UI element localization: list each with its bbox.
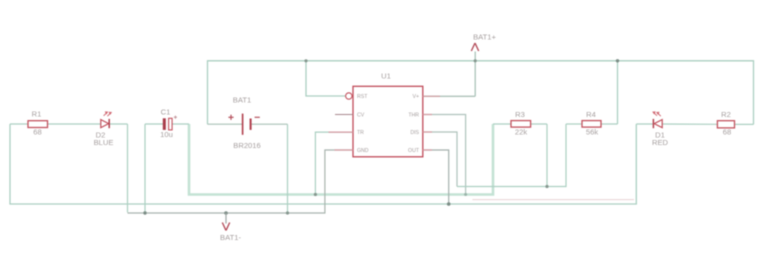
junction on rail at R4 right riser bbox=[616, 59, 619, 62]
svg-text:R4: R4 bbox=[586, 110, 596, 119]
wire: R4 left lead bbox=[566, 123, 582, 125]
wire: R4 right riser to rail bbox=[617, 61, 619, 124]
LED D2 emission arrows bbox=[104, 112, 112, 117]
wire: output rail R1 left riser, bottom run, D1 left riser bbox=[10, 124, 636, 204]
svg-text:CV: CV bbox=[357, 112, 365, 118]
junction on rail at RST riser bbox=[304, 59, 307, 62]
svg-text:R2: R2 bbox=[721, 110, 731, 119]
battery BAT1 minus sign bbox=[255, 116, 260, 118]
svg-text:V+: V+ bbox=[413, 94, 420, 100]
pin stub V+ bbox=[423, 95, 440, 97]
svg-text:BR2016: BR2016 bbox=[233, 141, 260, 150]
LED D2 triangle bbox=[101, 120, 109, 128]
junction ground rail at BAT1- stub bbox=[224, 211, 228, 215]
resistor R1 bbox=[28, 121, 48, 128]
wire: D1 to R2 bbox=[662, 123, 717, 125]
wire: R4 right lead bbox=[601, 123, 618, 125]
svg-text:TR: TR bbox=[357, 130, 364, 136]
svg-text:C1: C1 bbox=[161, 107, 171, 116]
wire: RST net from rail down to reset bubble bbox=[306, 61, 345, 96]
svg-text:BLUE: BLUE bbox=[94, 138, 114, 147]
wire: V+ pin to BAT1+ riser bbox=[423, 95, 475, 97]
wire: R3 left lead bbox=[493, 123, 511, 125]
capacitor C1 right plate bbox=[169, 118, 173, 130]
svg-text:68: 68 bbox=[33, 127, 41, 136]
svg-text:DIS: DIS bbox=[410, 130, 419, 136]
svg-text:10u: 10u bbox=[160, 130, 173, 139]
junction THR net at TR riser bbox=[314, 193, 317, 196]
wire: battery positive lead bbox=[208, 123, 243, 125]
LED D2 cathode bar bbox=[108, 119, 110, 128]
wire: R1 to D2 anode bbox=[48, 123, 101, 125]
power flag BAT1- arrow bbox=[222, 223, 229, 231]
wire: battery negative lead bbox=[251, 123, 288, 125]
svg-text:R3: R3 bbox=[515, 110, 525, 119]
pin stub THR bbox=[423, 114, 432, 116]
pin stub CV (unconnected) bbox=[335, 114, 353, 116]
pin stub OUT bbox=[423, 149, 432, 151]
wire: ground rail bottom grey run and GND pin riser bbox=[128, 150, 353, 213]
junction THR net at THR riser bbox=[464, 193, 467, 196]
junction on rail at BAT1+ riser bbox=[474, 59, 477, 62]
wire: BAT1+ riser from arrow down to V+ pin wire bbox=[474, 52, 476, 97]
svg-text:22k: 22k bbox=[515, 127, 527, 136]
svg-text:BAT1+: BAT1+ bbox=[473, 33, 496, 42]
battery BAT1 plus sign bbox=[228, 115, 233, 120]
svg-text:U1: U1 bbox=[381, 72, 391, 81]
wire: C1 left lead bbox=[145, 123, 163, 125]
battery BAT1 short negative plate bbox=[250, 119, 252, 130]
pin stub DIS bbox=[423, 131, 432, 133]
resistor R4 bbox=[582, 121, 601, 128]
junction discharge net at R3 right bbox=[545, 185, 548, 188]
wire: R3 right lead riser to discharge net bbox=[546, 124, 548, 187]
svg-text:GND: GND bbox=[357, 148, 369, 154]
wire: OUT pin right, down to output rail bbox=[423, 150, 449, 206]
wire: D2 cathode riser to ground rail bbox=[127, 124, 129, 212]
wire: R2 right lead bbox=[735, 123, 754, 125]
LED D1 triangle bbox=[654, 120, 662, 128]
power flag BAT1- stub bbox=[225, 213, 227, 224]
battery BAT1 long positive plate bbox=[242, 114, 244, 135]
wire: THR pin right, down to THR net bbox=[423, 115, 466, 195]
pin stub GND bbox=[335, 149, 354, 151]
wire: C1 right lead bbox=[172, 123, 189, 125]
wire: C1 left riser to ground rail bbox=[144, 124, 146, 213]
LED D1 emission arrows bbox=[653, 112, 661, 117]
power flag BAT1+ arrow bbox=[471, 43, 478, 51]
wire: battery negative riser to ground rail bbox=[287, 124, 289, 213]
wire: D1 left lead bbox=[636, 123, 653, 125]
svg-text:68: 68 bbox=[723, 127, 731, 136]
junction ground rail at C1 riser bbox=[143, 211, 146, 214]
svg-text:BAT1: BAT1 bbox=[233, 95, 251, 104]
junction output rail at OUT riser bbox=[447, 202, 451, 206]
svg-text:56k: 56k bbox=[586, 127, 598, 136]
wire: D2 cathode to riser bbox=[109, 123, 127, 125]
wire: faint ghost run above output rail bbox=[472, 199, 634, 201]
wire: R1 left lead bbox=[10, 123, 28, 125]
wire: R3 right lead bbox=[531, 123, 547, 125]
svg-text:THR: THR bbox=[408, 112, 419, 118]
resistor R3 bbox=[511, 121, 531, 128]
wire: DIS pin right, down to discharge net bbox=[423, 132, 457, 187]
wire: TR pin left, down to THR net bbox=[315, 132, 352, 194]
junction ground rail at battery negative riser bbox=[286, 211, 289, 214]
wire: THR net C1+ / TR / THR / R3 left (thick highlighted) bbox=[189, 124, 493, 195]
capacitor C1 polarity plus bbox=[174, 116, 177, 119]
wire: discharge net horizontal R3 right / R4 left bbox=[457, 124, 566, 187]
U1 reset bubble bbox=[346, 93, 352, 99]
svg-text:BAT1-: BAT1- bbox=[220, 233, 241, 242]
resistor R2 bbox=[717, 121, 734, 128]
capacitor C1 left plate (filled) bbox=[163, 118, 166, 130]
svg-text:RED: RED bbox=[652, 138, 669, 147]
svg-text:OUT: OUT bbox=[408, 148, 420, 154]
pin stub TR bbox=[329, 131, 354, 133]
LED D1 cathode bar bbox=[652, 119, 654, 128]
wire: top V+ rail from battery+ riser to R2 right riser bbox=[208, 61, 754, 125]
svg-text:RST: RST bbox=[357, 94, 368, 100]
svg-text:R1: R1 bbox=[32, 109, 42, 118]
op-amp/timer U1 body bbox=[353, 86, 423, 157]
